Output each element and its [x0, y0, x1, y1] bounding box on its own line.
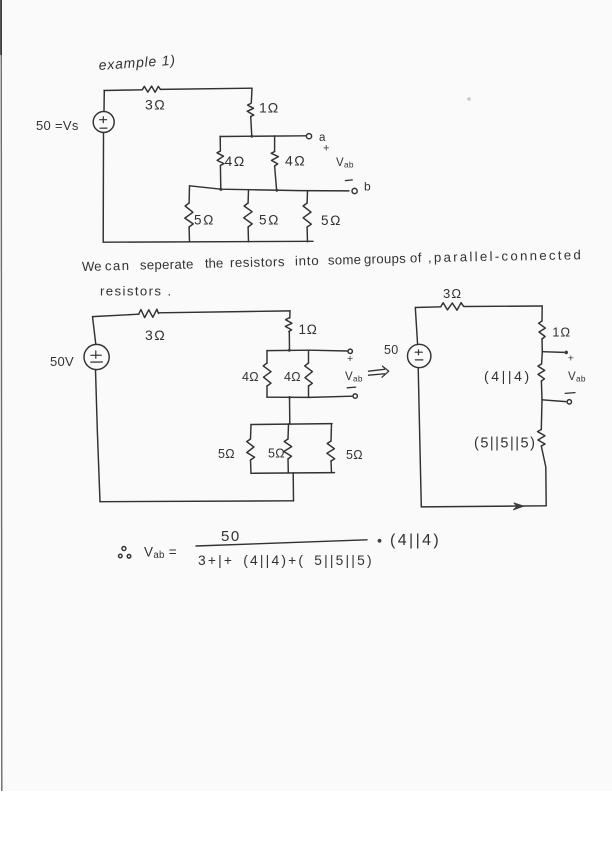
- svg-text:seperate: seperate: [140, 257, 194, 273]
- svg-text:+: +: [347, 353, 353, 365]
- svg-text:1Ω: 1Ω: [552, 325, 571, 340]
- svg-text:3Ω: 3Ω: [443, 286, 462, 301]
- svg-text:5Ω: 5Ω: [321, 213, 342, 228]
- svg-text:can: can: [105, 258, 131, 273]
- svg-text:4Ω: 4Ω: [284, 370, 301, 384]
- svg-text:50V: 50V: [50, 354, 74, 369]
- svg-text:the: the: [205, 255, 224, 270]
- svg-text:4Ω: 4Ω: [242, 370, 259, 384]
- svg-text:Vab: Vab: [568, 371, 586, 384]
- svg-text:3+|+ (4||4)+( 5||5||5): 3+|+ (4||4)+( 5||5||5): [198, 553, 374, 568]
- svg-text:groups: groups: [364, 251, 406, 267]
- svg-text:4Ω: 4Ω: [225, 153, 246, 169]
- svg-text:(4||4): (4||4): [390, 532, 441, 549]
- svg-text:some: some: [328, 252, 362, 268]
- svg-text:3Ω: 3Ω: [145, 327, 166, 343]
- svg-text:4Ω: 4Ω: [285, 153, 306, 169]
- svg-text:+: +: [568, 353, 574, 365]
- svg-text:+: +: [323, 143, 330, 155]
- svg-text:Vab: Vab: [336, 157, 354, 170]
- svg-text:5Ω: 5Ω: [346, 448, 363, 462]
- svg-text:5Ω: 5Ω: [194, 213, 215, 228]
- svg-text:5Ω: 5Ω: [218, 447, 235, 461]
- svg-text:3Ω: 3Ω: [145, 97, 166, 113]
- svg-text:(4||4): (4||4): [484, 368, 532, 384]
- svg-text:1Ω: 1Ω: [299, 322, 318, 337]
- svg-text:into: into: [295, 253, 320, 268]
- svg-text:of: of: [410, 250, 422, 265]
- svg-text:5Ω: 5Ω: [259, 213, 280, 228]
- svg-text:50: 50: [384, 343, 399, 357]
- svg-text:Vab: Vab: [345, 371, 363, 384]
- svg-text:b: b: [364, 180, 371, 194]
- svg-text:We: We: [82, 259, 102, 274]
- svg-text:50 =Vs: 50 =Vs: [36, 118, 79, 133]
- svg-text:(5||5||5): (5||5||5): [474, 436, 536, 452]
- svg-text:resistors .: resistors .: [100, 284, 173, 299]
- svg-text:resistors: resistors: [230, 254, 285, 270]
- svg-text:1Ω: 1Ω: [259, 100, 279, 116]
- svg-text:50: 50: [221, 528, 241, 545]
- svg-text:5Ω: 5Ω: [268, 447, 285, 461]
- svg-text:,parallel-connected: ,parallel-connected: [428, 247, 583, 265]
